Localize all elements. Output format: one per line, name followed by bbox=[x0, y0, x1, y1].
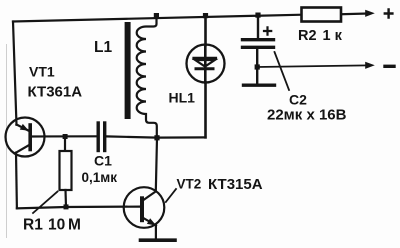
svg-text:VT1: VT1 bbox=[29, 64, 55, 80]
wire: VT1 base to C1 bbox=[45, 135, 97, 137]
node: + output arrowhead bbox=[365, 10, 375, 17]
junction: R1 bottom node bbox=[64, 204, 69, 209]
label: + output terminal bbox=[385, 10, 393, 18]
inductor L1 core bar bbox=[125, 22, 131, 119]
capacitor C2 plates bbox=[243, 40, 274, 48]
junction: R1 top node bbox=[63, 134, 68, 139]
svg-text:КТ361А: КТ361А bbox=[28, 84, 83, 101]
wire: HL1 top lead bbox=[204, 16, 207, 46]
ground: C2 negative bbox=[244, 83, 275, 86]
leader: R1 label pointer bbox=[33, 192, 58, 214]
wire: HL1 bottom lead to mid net bbox=[204, 83, 207, 138]
junction: L1 top on rail bbox=[154, 13, 159, 18]
wire: VT1 collector down the left side bbox=[15, 153, 18, 209]
node: - output arrowhead bbox=[365, 62, 375, 69]
scan artifact: faint vertical line near left edge bbox=[6, 44, 8, 238]
wire: C1 to mid node to HL1 bottom bbox=[106, 136, 205, 137]
junction: HL1 top on rail bbox=[203, 13, 208, 18]
svg-text:C2: C2 bbox=[289, 92, 307, 108]
capacitor C1 plates bbox=[98, 123, 105, 151]
svg-text:VT2: VT2 bbox=[177, 177, 202, 192]
inductor L1 winding bbox=[137, 16, 157, 138]
svg-text:22мк x 16В: 22мк x 16В bbox=[267, 107, 347, 124]
label: - output terminal bbox=[385, 65, 394, 68]
LED indicator HL1 bbox=[187, 45, 225, 83]
svg-text:1 к: 1 к bbox=[323, 28, 343, 44]
junction: C2 negative line node bbox=[255, 64, 260, 69]
ground: VT2 emitter bbox=[141, 238, 176, 242]
wire: bottom rail (VT1 collector / R1 / VT2 base) bbox=[17, 207, 140, 209]
svg-text:0,1мк: 0,1мк bbox=[82, 170, 118, 185]
wire: C2 top lead bbox=[257, 15, 259, 39]
svg-text:R2: R2 bbox=[298, 28, 317, 44]
wire: VT2 emitter to ground bbox=[155, 225, 157, 238]
svg-text:R1: R1 bbox=[23, 217, 43, 234]
transistor VT1 KT361A (PNP) bbox=[6, 118, 45, 157]
junction: L1 bottom / VT2 collector node bbox=[154, 135, 159, 140]
resistor R2 bbox=[302, 8, 342, 22]
wire: top rail R2 to + output arrow bbox=[341, 12, 367, 15]
label: C2 polarity plus bbox=[264, 27, 271, 34]
resistor R1 bbox=[60, 137, 72, 208]
svg-text:M: M bbox=[68, 217, 81, 234]
wire: top supply rail (left corner to R2) bbox=[13, 15, 302, 22]
svg-text:10: 10 bbox=[48, 217, 65, 234]
junction: C2 top on rail bbox=[255, 13, 260, 18]
svg-text:C1: C1 bbox=[94, 153, 112, 169]
transistor VT2 KT315A (NPN) bbox=[124, 187, 165, 228]
svg-text:L1: L1 bbox=[94, 39, 112, 56]
leader: VT2 label pointer bbox=[166, 189, 176, 202]
wire: C2 bottom lead bbox=[256, 49, 258, 84]
wire: negative output line bbox=[257, 65, 367, 67]
wire: VT2 collector riser bbox=[156, 138, 157, 192]
svg-text:КТ315А: КТ315А bbox=[208, 176, 263, 193]
wire: left rail (top rail down to VT1 emitter) bbox=[13, 22, 17, 125]
svg-text:HL1: HL1 bbox=[169, 90, 196, 106]
leader: C2 label pointer bbox=[275, 52, 290, 90]
